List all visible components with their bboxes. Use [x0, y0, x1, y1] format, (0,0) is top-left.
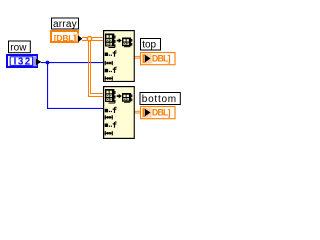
- terminal: top DBL indicator: [141, 53, 176, 65]
- node: orange wire junction circle: [87, 37, 91, 41]
- svg-text:I32: I32: [14, 57, 32, 68]
- icon: arrow glyph in block2: [117, 94, 122, 99]
- icon: block1 index row 2 (disabled): [105, 61, 113, 65]
- icon: block1 index row 4 (disabled): [105, 76, 113, 80]
- icon: sub-array glyph in block2: [122, 93, 132, 103]
- svg-text:top: top: [142, 40, 156, 51]
- block: Index Array 2 (function node): [103, 86, 135, 139]
- wire: orange 2D vertical branch: [88, 41, 91, 97]
- icon: 2D array glyph in block2: [105, 89, 116, 104]
- svg-text:row: row: [10, 43, 27, 54]
- terminal: I32 control: [7, 55, 41, 68]
- label: bottom: [140, 93, 180, 106]
- svg-text:DBL]: DBL]: [152, 53, 171, 63]
- svg-text:DBL]: DBL]: [152, 107, 171, 117]
- label: array: [52, 18, 79, 30]
- icon: arrow glyph in block1: [117, 38, 122, 43]
- terminal: [DBL] array control: [51, 31, 82, 43]
- icon: sub-array glyph in block1: [122, 38, 132, 48]
- wire: blue scalar row wire horizontal to Index Array 1: [41, 62, 103, 63]
- icon: block2 index row 2 (disabled): [105, 115, 113, 119]
- wire: orange 1D array wire block1 to top indicator: [134, 56, 141, 59]
- node: blue wire junction: [46, 61, 50, 65]
- icon: block2 index row 3 (wired): [105, 121, 117, 127]
- icon: block1 index row 1 (wired): [105, 50, 117, 56]
- wire: orange 1D array wire block2 to bottom indicator: [134, 111, 141, 114]
- wire: orange 2D horizontal into Index Array 2: [88, 93, 104, 97]
- svg-text:bottom: bottom: [142, 94, 177, 105]
- icon: 2D array glyph in block1: [105, 34, 116, 49]
- block: Index Array 1 (function node): [103, 30, 135, 82]
- svg-text:array: array: [53, 19, 77, 30]
- terminal: bottom DBL indicator: [141, 107, 176, 119]
- label: row: [9, 41, 31, 54]
- svg-text:[DBL]: [DBL]: [54, 33, 76, 43]
- wire: blue vertical branch: [47, 63, 48, 109]
- icon: block2 index row 4 (disabled): [105, 131, 113, 135]
- label: top: [141, 39, 161, 51]
- wire: orange 2D array wire from array terminal to Index Array 1: [82, 37, 104, 41]
- wire: blue horizontal into Index Array 2: [47, 108, 103, 109]
- icon: block2 index row 1 (wired): [105, 107, 117, 113]
- icon: block1 index row 3 (wired): [105, 67, 117, 73]
